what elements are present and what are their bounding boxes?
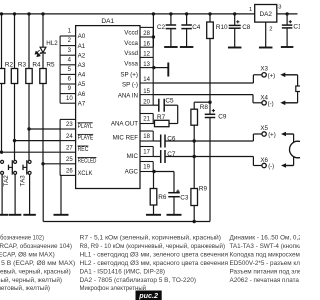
pin cells DA1 left pins 23-26 [60,119,76,175]
svg-text:24: 24 [66,134,73,140]
svg-text:5 В (ECAP, Ø8 мм MAX): 5 В (ECAP, Ø8 мм MAX) [1,260,75,267]
svg-text:19: 19 [143,165,150,171]
svg-text:C6: C6 [167,136,176,143]
svg-text:R7: R7 [157,114,166,121]
svg-text:XCLK: XCLK [78,170,94,177]
svg-text:рис.2: рис.2 [138,291,158,300]
svg-text:(-): (-) [268,101,274,107]
capacitor C2 with ground [157,12,178,47]
wire R3 column to PLAYE row [14,84,16,161]
svg-text:A7: A7 [78,100,86,107]
svg-text:Vssd: Vssd [124,50,138,57]
pin label PLAYE [78,134,94,141]
microphone external with arrows [281,132,306,168]
svg-text:(+): (+) [268,73,276,79]
svg-text:X6: X6 [260,157,268,164]
resistor R4 [26,61,41,83]
svg-text:R3: R3 [18,61,27,68]
pin labels Vccd..AGC [111,30,139,176]
regulator DA2 [255,5,277,23]
svg-text:A3: A3 [78,62,86,69]
wire R8 top [194,102,210,109]
wire ANA IN row [153,104,159,106]
wire R8 to MIC REF row [193,125,195,141]
wire AGC row [153,171,174,173]
svg-text:PLAYE: PLAYE [78,134,94,141]
svg-text:RCAP, обозначение 104): RCAP, обозначение 104) [0,242,72,250]
node R3/PLAYE junction [13,139,16,142]
capacitor C5 [159,98,174,112]
svg-text:R6: R6 [158,194,167,201]
value labels parts list column 2 [80,234,229,293]
svg-text:обозначение 102): обозначение 102) [0,234,44,242]
connector X3 [260,65,275,79]
resistor R8 [191,104,209,125]
wire PLAYL row [29,128,60,130]
svg-text:Vssa: Vssa [124,60,138,67]
resistor R2 [0,61,14,83]
ground pin 13 bar [167,63,169,77]
svg-text:MIC: MIC [127,153,139,160]
wire RECLED row [43,163,60,165]
svg-text:C2: C2 [157,24,166,31]
svg-text:Разъем питания под элемент: Разъем питания под элемент [230,268,301,275]
node pin 28 junction [152,35,155,38]
svg-text:C8: C8 [242,24,251,31]
svg-text:R4: R4 [32,61,41,68]
connector X5 [260,125,275,138]
svg-text:A6: A6 [78,91,86,98]
wire MIC REF row [153,140,253,142]
wire C5 to R7 loop [164,105,178,123]
pin 1 label DA2 [249,7,252,13]
wire pin 13 to ground [153,67,168,69]
svg-text:10: 10 [66,96,73,102]
svg-text:25: 25 [66,157,73,163]
svg-text:SP (-): SP (-) [122,82,138,89]
node R2/REC junction [0,151,3,154]
svg-text:C3: C3 [180,195,189,202]
svg-text:SP (+): SP (+) [120,71,138,78]
ground XCLK [54,175,69,214]
svg-text:REC: REC [78,146,89,153]
svg-text:1: 1 [249,7,252,13]
svg-text:13: 13 [143,62,150,68]
node R9/MIC junction [193,155,196,158]
IC DA1 ISD1416 body [76,18,140,189]
svg-text:17: 17 [143,150,150,156]
wire column R4 [28,14,30,69]
wire SP- row to X4 [153,95,262,103]
node R8/MICREF junction [193,139,196,142]
speaker external with arrows [280,73,301,106]
capacitor C6 [161,135,176,148]
figure label рис.2 [136,291,162,300]
wire R5 column to RECLED row [42,84,44,164]
svg-text:C7: C7 [167,151,176,158]
svg-text:ANA OUT: ANA OUT [111,121,138,128]
pin label XCLK [78,170,94,177]
svg-text:12: 12 [143,52,150,58]
wire PLAYE row [15,140,61,142]
svg-text:A1: A1 [78,43,86,50]
svg-text:14: 14 [143,77,150,83]
pin label REC [78,146,89,153]
pin cells DA1 right pins 21,18,17,19 [140,114,153,172]
resistor R10 [207,12,228,38]
svg-text:DA1: DA1 [101,18,114,25]
svg-text:HL1 - светодиод Ø3 мм, зеленог: HL1 - светодиод Ø3 мм, зеленого цвета св… [80,251,228,258]
svg-text:R8: R8 [200,104,209,111]
wire R10 to C9 node [209,39,211,115]
svg-text:28: 28 [143,31,150,37]
svg-text:26: 26 [66,169,73,175]
svg-text:X3: X3 [260,65,268,72]
svg-text:R5: R5 [46,61,55,68]
svg-text:невый, черный, красный): невый, черный, красный) [0,267,71,275]
svg-text:HL2: HL2 [46,40,58,47]
svg-text:(-): (-) [268,164,274,170]
svg-text:A0: A0 [78,33,86,40]
capacitor C10 with ground [281,12,306,47]
svg-text:C10: C10 [293,24,300,31]
wire X5 riser [253,134,262,141]
wire ANA OUT row [153,123,154,125]
node rail junction HL2/R5 [41,12,44,15]
LED HL2 [35,40,58,56]
svg-text:R9: R9 [199,185,208,192]
svg-text:PLAYL: PLAYL [78,123,94,130]
capacitor C7 [161,150,176,163]
connector X4 [260,95,273,108]
connector X6 [260,157,274,170]
wire MIC row [153,156,253,158]
pin 3 label DA2 [278,5,281,11]
switch TA3 with ground [19,160,35,215]
wire DA2 output [277,13,298,15]
svg-text:ECAP, Ø8 мм MAX): ECAP, Ø8 мм MAX) [0,251,55,258]
capacitor C4 with ground [180,12,201,47]
svg-text:20: 20 [143,99,150,105]
svg-text:21: 21 [143,117,150,123]
node rail junction R3 [13,12,16,15]
svg-text:HL2 - светодиод Ø3 мм, красног: HL2 - светодиод Ø3 мм, красного цвета св… [80,260,229,267]
capacitor C3 with ground [167,172,189,215]
wire column R3 [14,14,16,69]
pin label RECLED [78,158,97,165]
svg-text:ED500V-2*5 - разъем клемм.: ED500V-2*5 - разъем клемм. [230,260,301,267]
svg-text:AGC: AGC [125,169,139,176]
wire X6 riser [253,157,262,166]
capacitor C8 with ground [228,12,251,47]
node supply rail junction [152,12,155,15]
svg-text:Динамик - 16..50 Ом, 0,25 Вт: Динамик - 16..50 Ом, 0,25 Вт [230,235,301,242]
svg-text:18: 18 [143,134,150,140]
switch TA2 with ground [3,160,21,215]
svg-text:DA2 - 7805 (стабилизатор 5 В,: DA2 - 7805 (стабилизатор 5 В, TO-220) [80,276,197,284]
wire bottom ground rail [43,221,210,223]
svg-text:A2: A2 [78,52,86,59]
svg-text:Vcca: Vcca [124,40,138,47]
wire MICREF to MIC row [193,141,195,157]
svg-text:олетовый, желтый): олетовый, желтый) [0,284,50,292]
svg-text:DA1 - ISD1416 (ИМС, DIP-28): DA1 - ISD1416 (ИМС, DIP-28) [80,268,166,275]
svg-text:MIC REF: MIC REF [113,135,139,142]
node pin 13 junction [152,66,155,69]
value labels parts list column 1 [0,234,75,293]
pin cells DA1 right pins 28-20 [140,27,153,105]
svg-text:DA2: DA2 [259,11,272,18]
wire R9 to bottom rail [193,206,196,224]
svg-text:(+): (+) [268,133,276,139]
svg-text:ТА2: ТА2 [3,175,10,187]
wire column R2 [1,14,3,69]
wire R4 column to PLAYL row [28,84,30,161]
wire column R5 [42,14,44,69]
svg-text:A4: A4 [78,72,86,79]
pin cells DA1 left pins 1-10 [60,29,76,104]
svg-text:15: 15 [143,89,150,95]
svg-text:ТА3: ТА3 [19,175,26,187]
value labels parts list column 3 [230,235,320,284]
svg-text:R10: R10 [216,24,228,31]
wire supply to pins 28,16 [152,14,154,47]
svg-text:RECLED: RECLED [78,158,97,165]
svg-text:16: 16 [143,41,150,47]
wire +V top rail [0,13,255,15]
resistor R9 [191,157,208,206]
svg-text:27: 27 [66,145,73,151]
pin 2 ground DA2 [259,22,273,47]
svg-text:23: 23 [66,122,73,128]
svg-text:X5: X5 [260,125,268,132]
wire REC row [0,151,60,153]
node R8/C9 junction [208,101,211,104]
svg-text:3: 3 [278,5,281,11]
svg-text:2: 2 [269,27,272,33]
svg-text:Vccd: Vccd [124,30,138,37]
svg-text:C4: C4 [192,24,201,31]
svg-text:овый, черный, желтый): овый, черный, желтый) [0,276,62,284]
node rail junction R2 [0,12,3,15]
svg-text:C5: C5 [165,98,174,105]
svg-text:R7 - 5,1 кОм (зеленый, коричне: R7 - 5,1 кОм (зеленый, коричневый, красн… [80,234,222,242]
resistor R7 [155,114,170,127]
svg-text:C9: C9 [218,114,227,121]
pin labels A0-A7 [78,33,86,107]
node R5/RECLED junction [41,162,44,165]
switch TA1 with ground [0,160,8,215]
wire C9 to bottom rail [209,118,211,222]
resistor R5 [40,61,55,83]
wire SP+ row to X3 [153,75,262,83]
svg-text:TA1-TA3 - SWT-4 (кнопка такт.): TA1-TA3 - SWT-4 (кнопка такт.) [230,243,301,250]
svg-text:ANA IN: ANA IN [118,93,138,100]
pin label PLAYL [78,123,94,130]
wire R2 column to REC row [1,84,3,153]
svg-text:Колодка под микросхему DIP: Колодка под микросхему DIP [230,251,301,258]
resistor R6 with ground [146,172,167,215]
resistor R3 [11,61,26,83]
capacitor C9 [205,109,227,121]
svg-text:R2: R2 [5,61,14,68]
svg-text:A5: A5 [78,81,86,88]
node R4/PLAYL junction [27,127,30,130]
wire RECLED node to bottom rail [42,164,44,222]
svg-text:A2062 - печатная плата в сбор: A2062 - печатная плата в сбор [230,276,301,284]
svg-text:R8, R9 - 10 кОм (коричневый, ч: R8, R9 - 10 кОм (коричневый, черный, ора… [80,242,226,250]
node AGC junction [152,170,155,173]
node rail junction R4 [27,12,30,15]
